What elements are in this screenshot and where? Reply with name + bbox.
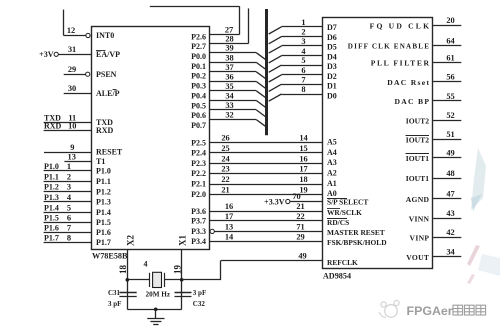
svg-text:RXD: RXD — [96, 126, 114, 135]
svg-text:INT0: INT0 — [96, 31, 114, 40]
pin 39 P0.0 wire — [210, 52, 256, 54]
svg-text:20: 20 — [446, 16, 454, 25]
watermark pink tick 2 — [467, 274, 475, 284]
svg-text:WR/SCLK: WR/SCLK — [327, 208, 362, 217]
svg-text:C32: C32 — [193, 300, 206, 308]
wire P0.7 bus entry diagonal — [256, 120, 266, 128]
pin 7 P1.6 wire — [44, 232, 92, 234]
wire P3.7 to AD9854 — [210, 220, 323, 222]
svg-text:P0.7: P0.7 — [191, 121, 206, 130]
svg-text:1: 1 — [67, 162, 71, 171]
svg-text:+3V: +3V — [39, 50, 54, 59]
capacitor C31 top plate — [119, 292, 136, 294]
pin 4 P1.3 wire — [44, 201, 92, 203]
svg-text:43: 43 — [446, 209, 454, 218]
watermark shape triangle notch — [471, 194, 482, 211]
pin 2 D6 wire — [282, 36, 323, 38]
pin 6 P1.5 wire — [44, 222, 92, 224]
svg-text:P0.1: P0.1 — [191, 62, 206, 71]
pin 42 VINP wire — [433, 237, 461, 239]
junction X1-crystal — [180, 278, 184, 282]
pin 49 REFCLK wire — [221, 260, 323, 262]
pin 52 IOUT2 wire — [433, 120, 461, 122]
svg-text:IOUT2: IOUT2 — [406, 135, 429, 144]
pin 61 PLL FILTER wire — [433, 62, 461, 64]
svg-text:T1: T1 — [96, 157, 105, 166]
svg-text:RESET: RESET — [96, 148, 123, 157]
wire P0.2 bus entry diagonal — [256, 72, 266, 80]
junction ground node — [154, 308, 158, 312]
svg-text:P1.2: P1.2 — [44, 183, 59, 192]
svg-text:RD/CS: RD/CS — [327, 218, 349, 227]
svg-text:P1.7: P1.7 — [44, 234, 59, 243]
wire D4 bus exit diagonal — [269, 56, 282, 63]
svg-text:P2.5: P2.5 — [191, 138, 206, 147]
svg-text:DIFF CLK ENABLE: DIFF CLK ENABLE — [348, 43, 430, 51]
svg-text:A2: A2 — [327, 168, 337, 177]
pin 1 P1.0 wire — [44, 170, 92, 172]
wire P0.3 bus entry diagonal — [256, 82, 266, 90]
pin 12 INT0 wire — [64, 35, 86, 37]
svg-text:5: 5 — [301, 56, 305, 65]
svg-text:3 pF: 3 pF — [193, 289, 206, 297]
svg-text:FSK/BPSK/HOLD: FSK/BPSK/HOLD — [327, 238, 387, 247]
svg-text:MASTER RESET: MASTER RESET — [327, 228, 385, 237]
wire P2.2 to A2 — [210, 173, 323, 175]
svg-text:P1.4: P1.4 — [96, 208, 111, 217]
svg-text:D6: D6 — [327, 33, 337, 42]
svg-text:A5: A5 — [327, 137, 337, 146]
wire cap bottom rail — [127, 309, 181, 311]
pin 56 DAC Rset wire — [433, 81, 461, 83]
svg-text:IOUT1: IOUT1 — [406, 174, 429, 183]
svg-text:15: 15 — [299, 144, 307, 153]
svg-text:39: 39 — [225, 44, 233, 53]
svg-text:25: 25 — [221, 144, 229, 153]
svg-text:AD9854: AD9854 — [323, 272, 351, 281]
svg-text:10: 10 — [68, 121, 76, 130]
svg-text:P1.7: P1.7 — [96, 238, 111, 247]
svg-text:P3.3: P3.3 — [191, 227, 206, 236]
svg-text:9: 9 — [70, 143, 74, 152]
wire P0.5 bus entry diagonal — [256, 101, 266, 109]
svg-text:37: 37 — [225, 63, 233, 72]
pin 34 P0.5 wire — [210, 100, 256, 102]
capacitor C31 bottom plate — [119, 296, 136, 298]
svg-text:P2.7: P2.7 — [191, 42, 206, 51]
svg-text:21: 21 — [221, 185, 229, 194]
svg-text:38: 38 — [225, 53, 233, 62]
svg-text:7: 7 — [301, 75, 305, 84]
svg-text:32: 32 — [225, 111, 233, 120]
svg-text:PSEN: PSEN — [96, 70, 117, 79]
svg-text:1: 1 — [301, 18, 305, 27]
pin 48 IOUT1 wire — [433, 178, 461, 180]
svg-text:48: 48 — [446, 169, 454, 178]
svg-text:6: 6 — [301, 66, 305, 75]
svg-text:+3.3V: +3.3V — [264, 197, 285, 206]
pin 19 X1 wire vertical — [181, 250, 183, 310]
svg-text:DAC Rset: DAC Rset — [387, 78, 430, 87]
svg-text:IOUT1: IOUT1 — [406, 154, 429, 163]
svg-text:3 pF: 3 pF — [108, 300, 121, 308]
svg-text:W78E58B: W78E58B — [92, 252, 128, 261]
wire P0.1 bus entry diagonal — [256, 62, 266, 70]
top rail wire — [150, 6, 240, 8]
svg-text:P2.3: P2.3 — [191, 159, 206, 168]
pin 34 VOUT wire — [433, 256, 461, 258]
pin 33 P0.6 wire — [210, 109, 256, 111]
ground bar 3 — [153, 324, 158, 326]
pin 20 FQ UD CLK wire — [433, 25, 461, 27]
svg-text:FQ UD CLK: FQ UD CLK — [370, 22, 432, 31]
pin 28 P2.7 wire — [210, 43, 249, 45]
svg-text:70: 70 — [292, 192, 300, 201]
svg-text:47: 47 — [446, 190, 454, 199]
svg-text:REFCLK: REFCLK — [327, 258, 358, 267]
svg-text:P1.0: P1.0 — [96, 167, 111, 176]
svg-text:A3: A3 — [327, 158, 337, 167]
svg-text:P1.5: P1.5 — [44, 214, 59, 223]
wire P2.0 to A0 — [210, 194, 323, 196]
svg-text:51: 51 — [446, 130, 454, 139]
svg-text:35: 35 — [225, 82, 233, 91]
wire P3.3 to AD9854 — [210, 229, 214, 233]
wire X1 to REFCLK horizontal — [182, 279, 221, 281]
IC U1 W78E58B microcontroller body — [92, 27, 210, 250]
svg-text:P0.6: P0.6 — [191, 111, 206, 120]
svg-text:D5: D5 — [327, 43, 337, 52]
svg-text:4: 4 — [301, 47, 306, 56]
svg-text:3: 3 — [67, 183, 71, 192]
svg-text:34: 34 — [225, 92, 234, 101]
pin 70 wire — [290, 201, 323, 203]
svg-text:49: 49 — [298, 251, 306, 260]
svg-text:22: 22 — [296, 212, 304, 221]
svg-text:7: 7 — [67, 224, 71, 233]
svg-text:29: 29 — [296, 232, 304, 241]
svg-text:ALE/P: ALE/P — [96, 89, 120, 98]
wire D7 bus exit diagonal — [269, 27, 282, 34]
wire P0.0 bus entry diagonal — [256, 53, 266, 61]
pin 29 PSEN wire — [64, 74, 86, 76]
pin 5 D3 wire — [282, 65, 323, 67]
svg-text:12: 12 — [67, 26, 75, 35]
svg-text:34: 34 — [446, 248, 455, 257]
svg-text:17: 17 — [225, 212, 233, 221]
svg-text:4: 4 — [144, 260, 148, 269]
pin 7 D1 wire — [282, 84, 323, 86]
wire D6 bus exit diagonal — [269, 37, 282, 44]
svg-text:AGND: AGND — [406, 195, 430, 204]
footer logo icon — [379, 300, 399, 317]
svg-text:DAC BP: DAC BP — [394, 97, 430, 106]
capacitor C32 top plate — [175, 292, 192, 294]
junction X2-crystal — [126, 278, 130, 282]
svg-text:24: 24 — [221, 154, 230, 163]
crystal left plate — [149, 273, 151, 287]
svg-text:36: 36 — [225, 73, 233, 82]
svg-text:FPGAer: FPGAer — [407, 304, 453, 318]
wire P3.4 to AD9854 — [210, 241, 323, 243]
svg-text:P2.1: P2.1 — [191, 180, 206, 189]
pin 30 ALE/P wire — [64, 93, 92, 95]
pin 38 P0.1 wire — [210, 62, 256, 64]
svg-text:8: 8 — [67, 234, 71, 243]
pin 6 D2 wire — [282, 74, 323, 76]
svg-text:P1.3: P1.3 — [96, 198, 111, 207]
pin 10 RXD wire — [44, 130, 92, 132]
wire P2.7 vertical riser — [248, 8, 250, 43]
svg-text:8: 8 — [301, 85, 305, 94]
pin 4 D4 wire — [282, 55, 323, 57]
svg-text:21: 21 — [296, 202, 304, 211]
svg-text:P3.4: P3.4 — [191, 237, 206, 246]
crystal body rectangle — [153, 272, 162, 287]
svg-text:30: 30 — [68, 84, 76, 93]
crystal left wire — [127, 279, 149, 281]
wire P2.5 to A5 — [210, 142, 323, 144]
svg-text:28: 28 — [225, 34, 233, 43]
svg-text:2: 2 — [67, 172, 71, 181]
svg-text:D4: D4 — [327, 52, 337, 61]
power +3V terminal circle — [54, 52, 58, 56]
wire P0.4 bus entry diagonal — [256, 91, 266, 99]
svg-text:31: 31 — [68, 45, 76, 54]
svg-text:IOUT2: IOUT2 — [406, 117, 429, 126]
svg-text:P0.3: P0.3 — [191, 82, 206, 91]
wire D1 bus exit diagonal — [269, 84, 282, 91]
svg-text:61: 61 — [446, 53, 454, 62]
svg-text:C31: C31 — [108, 289, 121, 297]
ground bar 2 — [150, 321, 161, 323]
pin 8 D0 wire — [282, 94, 323, 96]
pin 51 IOUT2 wire — [433, 139, 461, 141]
svg-text:49: 49 — [446, 149, 454, 158]
pin 1 D7 wire — [282, 26, 323, 28]
svg-text:55: 55 — [446, 92, 454, 101]
pin 47 AGND wire — [433, 198, 461, 200]
svg-text:18: 18 — [118, 265, 128, 275]
svg-text:4: 4 — [67, 193, 72, 202]
wire P0.6 bus entry diagonal — [256, 110, 266, 118]
pin 64 DIFF CLK ENABLE wire — [433, 45, 461, 47]
svg-text:A4: A4 — [327, 148, 337, 157]
wire D3 bus exit diagonal — [269, 65, 282, 72]
svg-text:6: 6 — [67, 214, 71, 223]
svg-text:16: 16 — [225, 202, 233, 211]
power +3.3V terminal circle — [286, 199, 290, 203]
svg-text:52: 52 — [446, 111, 454, 120]
pin 32 P0.7 wire — [210, 119, 256, 121]
svg-text:VINN: VINN — [409, 214, 430, 223]
svg-text:29: 29 — [68, 65, 76, 74]
svg-text:20M Hz: 20M Hz — [146, 291, 171, 299]
svg-text:X2: X2 — [126, 235, 136, 246]
svg-text:P1.6: P1.6 — [96, 228, 111, 237]
pin 43 VINN wire — [433, 218, 461, 220]
svg-text:22: 22 — [221, 175, 229, 184]
pin 3 P1.2 wire — [44, 191, 92, 193]
IC U2 AD9854 DDS body — [323, 18, 433, 269]
svg-text:P1.1: P1.1 — [44, 172, 59, 181]
ground bar 1 — [147, 318, 164, 320]
crystal right wire — [164, 279, 181, 281]
svg-text:42: 42 — [446, 228, 454, 237]
svg-text:P2.0: P2.0 — [191, 190, 206, 199]
svg-text:P1.6: P1.6 — [44, 224, 59, 233]
svg-text:P0.0: P0.0 — [191, 52, 206, 61]
svg-text:EA/VP: EA/VP — [96, 50, 120, 59]
svg-text:18: 18 — [299, 175, 307, 184]
svg-text:D7: D7 — [327, 23, 337, 32]
pin 11 TXD wire — [44, 122, 92, 124]
svg-text:D3: D3 — [327, 62, 337, 71]
svg-text:P2.4: P2.4 — [191, 149, 206, 158]
pin 27 P2.6 wire — [210, 34, 239, 36]
pin 12 INT0 inversion circle — [86, 33, 90, 37]
pin 29 PSEN inversion circle — [86, 72, 90, 76]
svg-text:64: 64 — [446, 36, 455, 45]
svg-text:D1: D1 — [327, 82, 337, 91]
svg-text:P1.5: P1.5 — [96, 218, 111, 227]
pin 9 RESET wire — [44, 152, 92, 154]
svg-text:3: 3 — [301, 37, 305, 46]
pin 31 EA/VP wire — [58, 54, 92, 56]
wire REFCLK riser — [220, 260, 222, 279]
data bus (thick) — [265, 9, 268, 135]
svg-text:P2.2: P2.2 — [191, 169, 206, 178]
pin 35 P0.4 wire — [210, 90, 256, 92]
svg-text:19: 19 — [173, 265, 183, 275]
svg-text:P1.3: P1.3 — [44, 193, 59, 202]
wire P2.3 to A3 — [210, 163, 323, 165]
pin 18 X2 wire vertical — [127, 250, 129, 310]
wire INT0 stub vertical — [63, 10, 65, 36]
svg-text:D0: D0 — [327, 91, 337, 100]
svg-text:13: 13 — [68, 153, 76, 162]
svg-text:14: 14 — [299, 134, 308, 143]
crystal right plate — [164, 273, 166, 287]
svg-text:D2: D2 — [327, 72, 337, 81]
wire P2.4 to A4 — [210, 152, 323, 154]
wire P3.6 to AD9854 — [210, 211, 323, 213]
pin 55 DAC BP wire — [433, 100, 461, 102]
wire P2.6 vertical riser — [239, 6, 241, 35]
svg-text:16: 16 — [299, 154, 307, 163]
svg-text:RXD: RXD — [44, 121, 62, 130]
svg-text:P2.6: P2.6 — [191, 32, 206, 41]
svg-text:33: 33 — [225, 101, 233, 110]
ground stem — [155, 309, 157, 318]
svg-text:13: 13 — [225, 222, 233, 231]
svg-text:P1.0: P1.0 — [44, 162, 59, 171]
svg-text:P3.6: P3.6 — [191, 207, 206, 216]
svg-text:56: 56 — [446, 73, 454, 82]
svg-text:X1: X1 — [178, 235, 188, 246]
svg-text:23: 23 — [221, 165, 229, 174]
wire D2 bus exit diagonal — [269, 75, 282, 82]
wire D0 bus exit diagonal — [269, 94, 282, 101]
svg-text:71: 71 — [296, 222, 304, 231]
watermark shape lower stroke — [467, 245, 480, 266]
svg-text:2: 2 — [301, 28, 305, 37]
watermark shape upper sail — [471, 148, 486, 210]
svg-text:VOUT: VOUT — [406, 253, 429, 262]
svg-text:P3.7: P3.7 — [191, 217, 206, 226]
svg-text:P1.4: P1.4 — [44, 203, 59, 212]
svg-text:27: 27 — [225, 26, 233, 35]
watermark shape bottom-right — [478, 254, 500, 276]
pin 13 T1 wire — [64, 161, 92, 163]
svg-text:P0.2: P0.2 — [191, 72, 206, 81]
svg-text:26: 26 — [221, 134, 229, 143]
svg-text:A1: A1 — [327, 179, 337, 188]
wire P2.1 to A1 — [210, 184, 323, 186]
svg-text:5: 5 — [67, 203, 71, 212]
pin 8 P1.7 wire — [44, 242, 92, 244]
pin 37 P0.2 wire — [210, 71, 256, 73]
wire D5 bus exit diagonal — [269, 46, 282, 53]
capacitor C32 bottom plate — [175, 296, 192, 298]
svg-text:P1.1: P1.1 — [96, 177, 111, 186]
svg-text:17: 17 — [299, 165, 307, 174]
pin 5 P1.4 wire — [44, 212, 92, 214]
pin 49 IOUT1 wire — [433, 157, 461, 159]
svg-text:P0.5: P0.5 — [191, 101, 206, 110]
pin 36 P0.3 wire — [210, 81, 256, 83]
pin 2 P1.1 wire — [44, 181, 92, 183]
svg-text:P1.2: P1.2 — [96, 187, 111, 196]
svg-text:14: 14 — [225, 232, 234, 241]
svg-text:P0.4: P0.4 — [191, 91, 206, 100]
pin 3 D5 wire — [282, 45, 323, 47]
svg-text:PLL FILTER: PLL FILTER — [371, 59, 431, 68]
svg-text:VINP: VINP — [410, 234, 430, 243]
